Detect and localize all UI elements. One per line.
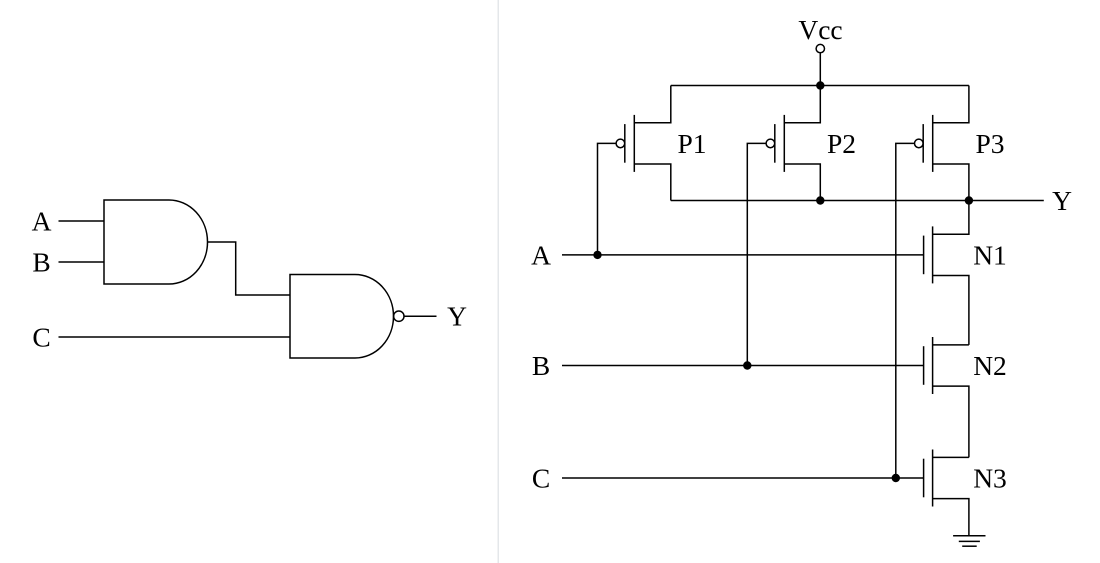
P2 drain leg to output rail — [784, 164, 820, 201]
wire C input — [59, 336, 291, 338]
wire P3 gate to node C — [896, 143, 915, 478]
svg-text:P1: P1 — [677, 128, 706, 159]
P3 drain leg to output rail — [933, 164, 969, 201]
transistor N1 — [924, 201, 969, 345]
N1 channel bar — [932, 226, 934, 283]
P3 gate bubble — [915, 139, 924, 148]
ground — [953, 536, 985, 547]
N1 source leg down — [933, 276, 969, 345]
wire B input — [59, 261, 105, 263]
N1 gate bar — [923, 236, 925, 275]
P2 gate bubble — [766, 139, 775, 148]
wire Y output — [404, 315, 437, 317]
junction P2 drain dot — [816, 196, 824, 204]
svg-text:Y: Y — [447, 301, 467, 332]
transistor P3 — [915, 86, 969, 201]
svg-text:Vcc: Vcc — [798, 14, 842, 45]
wire A input line — [562, 254, 924, 256]
svg-text:A: A — [32, 206, 52, 237]
wire C input line — [562, 477, 924, 479]
P3 source leg to Vcc rail — [933, 86, 969, 123]
junction Vcc rail dot — [816, 81, 824, 89]
N3 source leg to ground — [933, 499, 969, 536]
transistor N2 — [924, 337, 969, 457]
N2 gate bar — [923, 346, 925, 385]
svg-text:C: C — [32, 322, 50, 353]
wire Vcc to rail — [819, 53, 821, 86]
AND gate U1 — [104, 200, 208, 284]
svg-text:Y: Y — [1052, 185, 1072, 216]
junction A / P1 gate dot — [593, 251, 601, 259]
svg-text:P3: P3 — [975, 128, 1004, 159]
transistor N3 — [924, 450, 969, 536]
P1 gate bubble — [616, 139, 625, 148]
P2 channel bar — [783, 115, 785, 172]
P2 gate bar — [774, 124, 776, 163]
svg-text:C: C — [532, 463, 550, 494]
Vcc terminal circle — [816, 44, 824, 52]
P1 channel bar — [633, 115, 635, 172]
N3 channel bar — [932, 450, 934, 507]
svg-text:N3: N3 — [973, 463, 1007, 494]
N1 drain leg to Y rail — [933, 201, 969, 235]
N2 source leg down — [933, 386, 969, 457]
svg-text:P2: P2 — [827, 128, 856, 159]
wire P2 gate to node B — [747, 143, 766, 365]
divider between panels — [498, 0, 500, 563]
N2 channel bar — [932, 337, 934, 394]
svg-text:B: B — [32, 247, 50, 278]
P2 source leg to Vcc rail — [784, 86, 820, 123]
wire B input line — [562, 365, 924, 367]
N3 drain leg up — [933, 456, 969, 458]
transistor P1 — [616, 86, 671, 201]
NAND gate U2 body — [290, 275, 394, 359]
wire output rail Y — [671, 200, 1044, 202]
P1 source leg to Vcc rail — [634, 86, 671, 123]
svg-text:A: A — [531, 239, 551, 270]
wire AND output to NAND input — [208, 242, 291, 295]
wire top supply rail — [671, 85, 969, 87]
transistor P2 — [766, 86, 820, 201]
junction P3 drain / N1 drain dot — [965, 196, 973, 204]
svg-text:B: B — [532, 350, 550, 381]
N3 gate bar — [923, 459, 925, 498]
svg-text:N2: N2 — [973, 350, 1007, 381]
N2 drain leg up — [933, 344, 969, 346]
wire A input — [59, 220, 105, 222]
wire P1 gate to node A — [598, 143, 617, 255]
svg-text:N1: N1 — [973, 239, 1007, 270]
P3 channel bar — [932, 115, 934, 172]
junction B / P2 gate dot — [743, 361, 751, 369]
NAND gate U2 inversion bubble — [394, 311, 404, 321]
P3 gate bar — [922, 124, 924, 163]
P1 drain leg to output rail — [634, 164, 671, 201]
junction C / P3 gate dot — [892, 474, 900, 482]
P1 gate bar — [624, 124, 626, 163]
